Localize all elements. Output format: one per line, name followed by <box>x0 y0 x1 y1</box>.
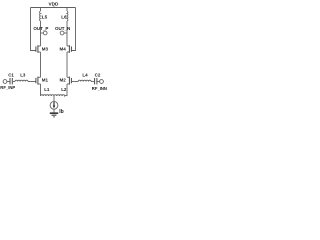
wire L3 to M1 gate <box>28 81 36 83</box>
svg-text:OUT_P: OUT_P <box>33 26 48 31</box>
wire VDD label stub <box>53 6 55 8</box>
wire right cascode gate bias <box>72 8 76 51</box>
wire current source to ground <box>53 109 55 113</box>
wire L6 to M4 drain (node OUT_N) <box>66 21 68 46</box>
capacitor C2 <box>95 72 101 84</box>
port OUT_N <box>55 26 70 35</box>
inductor L2 <box>54 87 67 96</box>
svg-text:VDD: VDD <box>49 1 60 6</box>
wire M2 gate to L4 <box>71 81 78 83</box>
inductor L1 <box>41 87 55 96</box>
svg-text:L2: L2 <box>61 87 67 92</box>
transistor M4 <box>60 45 72 53</box>
current source Ib <box>50 101 64 114</box>
wire VDD to L6 <box>66 8 68 12</box>
transistor M2 <box>60 77 72 85</box>
inductor L6 <box>61 11 68 21</box>
svg-text:L6: L6 <box>61 14 67 19</box>
wire C2 to port <box>97 81 99 83</box>
svg-text:L4: L4 <box>82 72 88 77</box>
inductor L4 <box>78 72 91 81</box>
port RF_INN <box>92 80 107 92</box>
svg-text:M1: M1 <box>42 77 49 82</box>
svg-text:L3: L3 <box>20 72 26 77</box>
wire M2 source to L2 <box>66 84 68 96</box>
wire M1 source to L1 <box>40 84 42 96</box>
capacitor C1 <box>8 72 14 84</box>
svg-text:C2: C2 <box>95 72 101 77</box>
svg-text:Ib: Ib <box>59 109 63 115</box>
svg-text:L5: L5 <box>42 14 48 19</box>
port RF_INP <box>0 80 15 91</box>
svg-text:M2: M2 <box>60 77 67 82</box>
transistor M3 <box>36 45 49 53</box>
port OUT_P <box>33 26 48 35</box>
wire left cascode gate bias <box>31 8 36 51</box>
inductor L5 <box>40 11 48 21</box>
svg-text:RF_INN: RF_INN <box>92 86 107 91</box>
svg-text:C1: C1 <box>8 72 14 77</box>
wire VDD rail <box>31 7 76 9</box>
wire VDD to L5 <box>40 8 42 12</box>
svg-text:M4: M4 <box>60 47 67 52</box>
svg-text:L1: L1 <box>44 87 50 92</box>
transistor M1 <box>36 77 49 85</box>
inductor L3 <box>15 72 28 81</box>
svg-text:M3: M3 <box>42 47 49 52</box>
wire L5 to M3 drain (node OUT_P) <box>40 21 42 46</box>
ground <box>50 113 58 117</box>
wire port to C1 <box>7 81 10 83</box>
node tail junction <box>53 96 55 101</box>
svg-text:RF_INP: RF_INP <box>0 85 15 90</box>
svg-text:OUT_N: OUT_N <box>55 26 70 31</box>
wire L4 to C2 <box>91 81 94 83</box>
wire M4 source to M2 drain <box>66 52 68 77</box>
wire C1 to L3 <box>13 81 15 83</box>
wire M3 source to M1 drain <box>40 52 42 77</box>
